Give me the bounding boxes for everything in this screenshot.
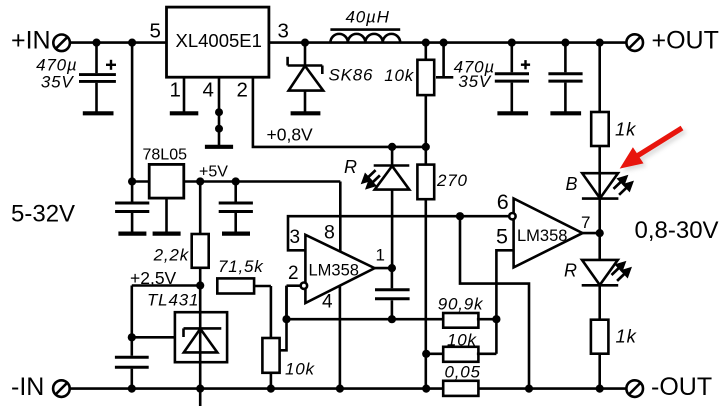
- IC TL431: [175, 286, 227, 406]
- svg-text:0,8-30V: 0,8-30V: [635, 217, 719, 244]
- junction 78L05 feed on +IN rail: [128, 39, 136, 47]
- svg-text:10k: 10k: [384, 66, 415, 85]
- wire pin1 output: [375, 267, 392, 270]
- svg-text:10k: 10k: [285, 360, 316, 379]
- capacitor feedback: [375, 268, 410, 319]
- resistor 71,5k: [217, 278, 271, 338]
- svg-text:R: R: [564, 261, 578, 281]
- LED B emission arrows: [614, 177, 632, 195]
- wire LED B to node pin7: [598, 199, 601, 260]
- junction 2,2k on +5V rail: [196, 177, 204, 185]
- wire feedback net: [287, 318, 445, 321]
- svg-text:LM358: LM358: [309, 262, 359, 280]
- svg-text:35V: 35V: [41, 73, 75, 92]
- capacitor output ceramic: [548, 43, 582, 114]
- svg-text:1: 1: [376, 246, 385, 265]
- wire pin4 to ground: [339, 286, 342, 389]
- junction 1k chain on 0V rail: [596, 385, 604, 393]
- junction 270 on +0,8V net: [422, 143, 430, 151]
- svg-text:3: 3: [290, 227, 301, 248]
- svg-text:35V: 35V: [458, 72, 492, 91]
- pin2 bubble: [301, 283, 307, 289]
- LED R (left): [374, 147, 410, 268]
- svg-text:0,05: 0,05: [445, 363, 481, 382]
- pin6 bubble: [509, 213, 515, 219]
- wire 78L05 ground pin: [153, 198, 181, 234]
- svg-text:5: 5: [150, 20, 161, 43]
- red arrow pointer: [620, 126, 687, 172]
- resistor 2,2k: [192, 182, 209, 286]
- svg-text:78L05: 78L05: [143, 147, 188, 164]
- svg-text:LM358: LM358: [517, 227, 567, 245]
- svg-text:+0,8V: +0,8V: [267, 125, 314, 145]
- capacitor at TL431: [115, 357, 149, 388]
- wire 1k to LED B: [598, 146, 601, 198]
- svg-text:5: 5: [496, 225, 508, 249]
- wire right chain from +OUT: [598, 43, 601, 112]
- resistor 10k (divider): [426, 319, 496, 362]
- wire pin3 to pin6 net: [288, 216, 509, 250]
- junction pin6 branch on 0V rail: [525, 385, 533, 393]
- junction 10k tap on +OUT rail: [440, 39, 448, 47]
- terminal -OUT: [626, 380, 643, 397]
- svg-text:SK86: SK86: [329, 66, 374, 85]
- junction SK86 on switch node: [301, 39, 309, 47]
- junction op-amp output pin1: [388, 264, 396, 272]
- svg-text:1k: 1k: [615, 119, 637, 140]
- junction input cap on +IN rail: [92, 39, 100, 47]
- resistor 1k (lower): [591, 320, 609, 354]
- junction ceramic cap on +OUT rail: [561, 39, 569, 47]
- svg-text:1k: 1k: [616, 326, 638, 347]
- wire pin1 of U1 to ground bar: [170, 77, 199, 113]
- svg-text:+IN: +IN: [11, 27, 51, 55]
- svg-text:-IN: -IN: [11, 373, 44, 401]
- svg-text:5-32V: 5-32V: [11, 201, 75, 228]
- junction 270 branch on 0V rail: [422, 385, 430, 393]
- wire pin2 node down: [285, 286, 288, 320]
- svg-text:+5V: +5V: [199, 164, 228, 181]
- op-amp U2b LM358: [514, 199, 583, 268]
- svg-text:+2,5V: +2,5V: [130, 268, 177, 288]
- junction LED R on +0,8V net: [388, 143, 396, 151]
- wire tap of 10k bottom to pin2 node: [280, 286, 287, 351]
- resistor 90,9k: [443, 313, 496, 328]
- svg-text:8: 8: [324, 222, 335, 244]
- resistor 270: [417, 147, 434, 389]
- svg-text:2: 2: [288, 263, 299, 284]
- wire pin2 of U1 to +0,8V net: [253, 77, 426, 147]
- wire pin5: [496, 250, 513, 319]
- svg-text:270: 270: [436, 171, 468, 190]
- wire pin7 output: [583, 232, 600, 235]
- resistor 10k (feedback bottom): [262, 338, 279, 389]
- op-amp U2a LM358: [305, 235, 374, 303]
- svg-text:-OUT: -OUT: [651, 373, 712, 401]
- LED R right emission arrows: [612, 263, 630, 281]
- junction node +2,5V: [196, 281, 204, 289]
- wire pin6 ground branch: [460, 216, 529, 388]
- resistor 10k (feedback top): [417, 43, 434, 147]
- svg-text:90,9k: 90,9k: [438, 295, 484, 314]
- IC 78L05: [149, 164, 184, 198]
- svg-text:40µH: 40µH: [346, 8, 390, 27]
- wire tap of 10k: [436, 43, 453, 78]
- capacitor 470u/35V output: [495, 43, 530, 114]
- wire pin4 of U1 to ground bar: [205, 77, 233, 147]
- junction op-amp output pin7: [596, 229, 604, 237]
- svg-text:4: 4: [322, 292, 333, 313]
- junction TL431 ref: [128, 333, 136, 341]
- junction 10k left on 270 branch: [422, 350, 430, 358]
- LED R (right): [582, 260, 619, 285]
- wire bottom rail -IN to -OUT: [70, 387, 627, 390]
- inductor 40uH: [330, 30, 400, 43]
- junction ground branch on pin3-pin6 net: [456, 212, 464, 220]
- IC U1 XL4005E1: [167, 7, 269, 77]
- LED R left emission arrows: [363, 170, 380, 187]
- svg-text:3: 3: [278, 20, 289, 43]
- terminal -IN: [53, 380, 70, 397]
- svg-text:2,2k: 2,2k: [153, 246, 190, 265]
- svg-text:XL4005E1: XL4005E1: [176, 30, 262, 51]
- svg-text:1: 1: [170, 79, 181, 102]
- junction pin2 on feedback net: [282, 315, 290, 323]
- svg-text:2: 2: [237, 79, 248, 102]
- junction cap on +5V rail: [232, 177, 240, 185]
- svg-text:7: 7: [581, 213, 590, 232]
- svg-text:R: R: [344, 157, 358, 177]
- resistor 1k (upper): [591, 112, 609, 146]
- svg-text:B: B: [566, 174, 579, 194]
- junction pin4 on 0V rail: [336, 385, 344, 393]
- resistor 0,05 shunt: [443, 381, 478, 396]
- svg-text:71,5k: 71,5k: [218, 257, 264, 276]
- wire pin2: [287, 284, 301, 287]
- capacitor at 78L05 input: [115, 182, 149, 234]
- svg-text:4: 4: [203, 79, 214, 102]
- junction TL431 cap on 0V rail: [128, 385, 136, 393]
- wire +5V to pin8: [339, 182, 342, 252]
- diode SK86: [288, 43, 324, 114]
- junction 470u cap on +OUT rail: [508, 39, 516, 47]
- wire TL431 ref: [132, 336, 175, 339]
- wire +2,5V node: [132, 286, 200, 356]
- junction 10k top on +OUT rail: [422, 39, 430, 47]
- wire +5V rail: [184, 180, 340, 183]
- svg-text:6: 6: [497, 190, 509, 214]
- LED B: [582, 173, 619, 198]
- junction 10k bottom on 0V rail: [267, 385, 275, 393]
- terminal +IN: [53, 35, 70, 52]
- terminal +OUT: [626, 34, 643, 51]
- wire 1k lower to bottom rail: [598, 354, 601, 389]
- junction cap on feedback net: [388, 315, 396, 323]
- junction 1k chain on +OUT rail: [596, 39, 604, 47]
- junction 90,9k-10k-pin5 node: [492, 315, 500, 323]
- wire +IN to 78L05 input: [131, 43, 134, 182]
- svg-text:+OUT: +OUT: [652, 27, 719, 55]
- capacitor 470u/35V input: [79, 43, 116, 114]
- wire top rail +IN to +OUT: [70, 41, 627, 44]
- wire into 78L05: [132, 180, 149, 183]
- svg-text:TL431: TL431: [147, 291, 199, 310]
- junction 78L05 input node: [128, 177, 136, 185]
- capacitor at +5V: [219, 182, 253, 234]
- svg-text:10k: 10k: [447, 331, 478, 350]
- junction TL431 anode on 0V rail: [196, 385, 204, 393]
- wire LED R to 1k lower: [598, 285, 601, 319]
